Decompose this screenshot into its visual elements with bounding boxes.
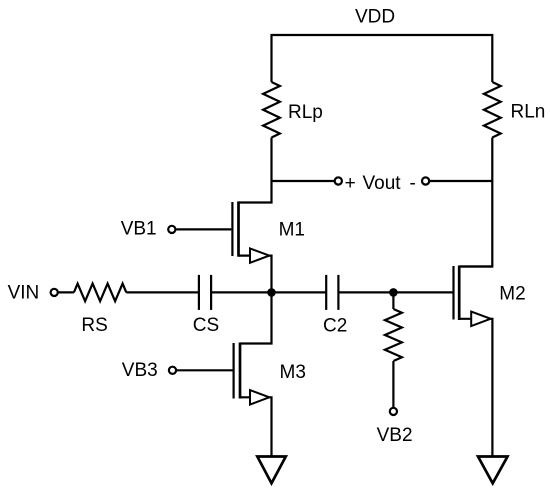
wire RS to CS — [126, 291, 199, 293]
capacitor CS plate right — [210, 275, 212, 310]
svg-text:RLn: RLn — [511, 102, 546, 123]
wire node B to bias resistor — [392, 292, 394, 309]
svg-text:VIN: VIN — [8, 283, 40, 304]
transistor M3 source arrow — [250, 390, 269, 404]
svg-text:M2: M2 — [499, 284, 525, 305]
terminal circle Vout + — [335, 177, 342, 184]
node A junction dot — [267, 288, 276, 297]
transistor M1 channel bar — [237, 201, 240, 256]
resistor RLn — [484, 82, 501, 138]
svg-text:VDD: VDD — [355, 7, 395, 28]
wire VB3 to M3 gate — [176, 369, 233, 371]
svg-text:RS: RS — [81, 315, 107, 336]
svg-text:CS: CS — [193, 315, 219, 336]
wire C2 to node B to M2 gate — [338, 291, 452, 293]
svg-text:Vout: Vout — [363, 173, 402, 194]
transistor M1 source line — [239, 256, 272, 293]
transistor M2 source line — [459, 319, 492, 457]
wire Vout right segment — [429, 180, 492, 182]
svg-text:C2: C2 — [323, 316, 347, 337]
wire CS to node A to C2 — [211, 291, 326, 293]
capacitor C2 plate left — [325, 275, 327, 310]
transistor M3 gate bar — [233, 343, 235, 399]
wire M2 drain up to Vout — [459, 265, 492, 267]
transistor M2 channel bar — [458, 266, 461, 321]
svg-text:+: + — [345, 173, 356, 194]
capacitor C2 plate right — [337, 275, 339, 310]
wire Vout left segment — [272, 180, 335, 182]
terminal circle VB2 — [390, 408, 397, 415]
transistor M3 channel bar — [239, 343, 242, 399]
svg-text:VB2: VB2 — [377, 425, 413, 446]
wire resistor to VB2 terminal — [392, 361, 394, 408]
svg-text:-: - — [410, 173, 416, 194]
transistor M1 gate bar — [231, 202, 233, 256]
node B junction dot — [389, 288, 398, 297]
capacitor CS plate left — [198, 275, 200, 310]
svg-text:M1: M1 — [279, 220, 305, 241]
wire RLp bottom to M1 drain — [239, 138, 272, 203]
transistor M2 source arrow — [471, 312, 490, 326]
wire VB1 to M1 gate — [175, 228, 231, 230]
transistor M1 source arrow — [250, 248, 269, 262]
terminal circle VB3 — [169, 367, 176, 374]
terminal circle VB1 — [168, 226, 175, 233]
wire VDD rail — [272, 35, 493, 82]
transistor M3 source line — [240, 397, 272, 456]
ground symbol below M2 — [478, 457, 508, 484]
terminal circle Vout - — [422, 177, 429, 184]
resistor RS — [74, 284, 126, 302]
wire node A to M3 drain — [240, 292, 272, 343]
wire VIN to RS — [58, 291, 74, 293]
resistor to VB2 — [385, 309, 402, 361]
svg-text:RLp: RLp — [288, 102, 323, 123]
svg-text:VB1: VB1 — [121, 219, 157, 240]
resistor RLp — [263, 82, 280, 138]
transistor M2 gate bar — [452, 266, 454, 320]
svg-text:VB3: VB3 — [122, 360, 158, 381]
svg-text:M3: M3 — [280, 362, 306, 383]
ground symbol below M3 — [257, 457, 286, 484]
wire RLn bottom to M2 drain — [459, 138, 492, 267]
terminal circle VIN — [51, 289, 58, 296]
